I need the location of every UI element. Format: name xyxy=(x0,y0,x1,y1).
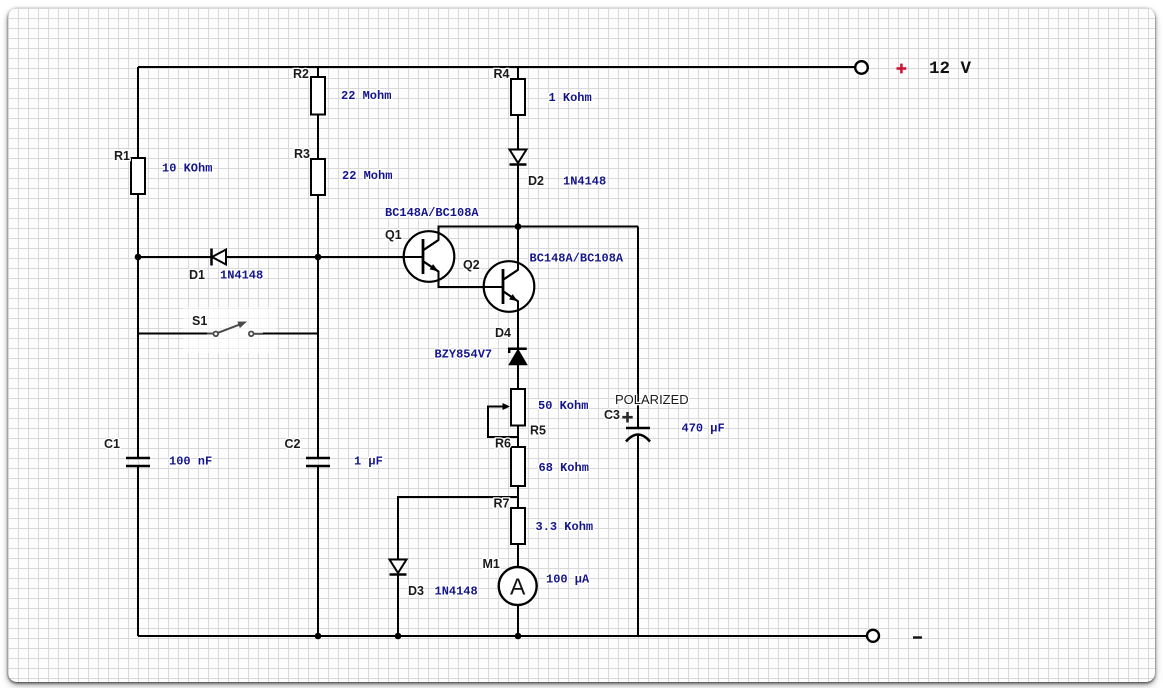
svg-text:BZY854V7: BZY854V7 xyxy=(435,348,493,362)
wire top +12V rail xyxy=(138,66,855,68)
svg-text:22 Mohm: 22 Mohm xyxy=(342,169,392,183)
svg-text:R7: R7 xyxy=(494,497,510,511)
plus sign +12V (red) xyxy=(897,64,907,74)
svg-text:470 µF: 470 µF xyxy=(682,422,725,436)
wire Q1 collector to node xyxy=(424,227,639,251)
resistor R7 xyxy=(511,508,525,544)
svg-text:POLARIZED: POLARIZED xyxy=(615,392,689,407)
resistor R1 xyxy=(131,158,145,194)
svg-text:C3: C3 xyxy=(604,408,620,422)
wire R6/R7 junction to D3 xyxy=(398,497,518,636)
wire S1 left xyxy=(138,333,207,335)
capacitor C3 plus polarity mark xyxy=(622,412,632,423)
svg-text:1N4148: 1N4148 xyxy=(220,269,263,283)
wire Q1 emitter to Q2 base xyxy=(424,262,504,288)
svg-text:Q1: Q1 xyxy=(385,228,402,242)
wire left rail upper (R1 branch) xyxy=(137,67,139,458)
capacitor C2 xyxy=(306,458,330,466)
svg-text:M1: M1 xyxy=(483,557,500,571)
svg-text:D1: D1 xyxy=(189,268,205,282)
transistor Q1 xyxy=(423,239,439,274)
svg-text:C1: C1 xyxy=(104,437,120,451)
svg-text:BC148A/BC108A: BC148A/BC108A xyxy=(385,206,479,220)
node junction dot D1-right xyxy=(315,254,322,261)
wire Q2 emitter branch down xyxy=(504,292,519,637)
resistor R3 xyxy=(311,159,325,195)
capacitor C1 xyxy=(126,458,150,466)
svg-text:22 Mohm: 22 Mohm xyxy=(341,89,391,103)
resistor R6 xyxy=(511,447,525,486)
svg-text:D3: D3 xyxy=(408,584,424,598)
diode D1 xyxy=(212,249,227,266)
resistor R4 xyxy=(511,79,525,115)
terminal +12V xyxy=(855,61,868,74)
transistor Q2 xyxy=(503,269,518,304)
svg-text:1 µF: 1 µF xyxy=(354,455,383,469)
wire left rail lower xyxy=(137,466,139,636)
svg-text:12 V: 12 V xyxy=(929,59,972,79)
node junction dot D1-left xyxy=(135,254,142,261)
svg-text:R3: R3 xyxy=(294,147,310,161)
wire bottom rail xyxy=(138,635,867,637)
wire Q2 collector xyxy=(504,227,519,280)
svg-text:Q2: Q2 xyxy=(463,258,480,272)
switch S1 backdrop xyxy=(183,307,277,353)
wire S1 right xyxy=(263,333,318,335)
wire Q1 base xyxy=(318,256,423,258)
svg-text:100 nF: 100 nF xyxy=(169,455,212,469)
wire R4/D2 branch xyxy=(517,67,519,227)
wire right branch upper (C3) xyxy=(637,227,639,429)
potentiometer R5 wiper arrow xyxy=(503,403,511,410)
diode D3 xyxy=(390,560,407,575)
svg-text:50 Kohm: 50 Kohm xyxy=(538,399,588,413)
svg-text:BC148A/BC108A: BC148A/BC108A xyxy=(530,252,624,266)
svg-text:1 Kohm: 1 Kohm xyxy=(549,91,592,105)
svg-text:3.3 Kohm: 3.3 Kohm xyxy=(536,520,594,534)
node junction dot bottom C2 xyxy=(315,633,322,640)
zener diode D4 xyxy=(509,349,527,365)
node junction dot bottom M1 xyxy=(515,633,522,640)
svg-text:68 Kohm: 68 Kohm xyxy=(539,461,589,475)
wire R5 wiper xyxy=(488,407,518,438)
svg-text:1N4148: 1N4148 xyxy=(435,585,478,599)
minus sign negative terminal xyxy=(913,636,922,638)
svg-text:D2: D2 xyxy=(528,174,544,188)
svg-text:C2: C2 xyxy=(285,437,301,451)
node junction dot bottom D3 xyxy=(395,633,402,640)
svg-text:100 µA: 100 µA xyxy=(546,573,590,587)
switch S1 xyxy=(207,322,263,337)
svg-text:1N4148: 1N4148 xyxy=(563,175,606,189)
svg-text:D4: D4 xyxy=(495,326,511,340)
polarized capacitor C3 xyxy=(626,428,650,442)
potentiometer R5 xyxy=(511,389,525,426)
svg-text:A: A xyxy=(510,573,526,599)
wire right branch lower xyxy=(637,434,639,636)
svg-text:R6: R6 xyxy=(495,437,511,451)
node junction dot collector rail xyxy=(515,223,522,230)
svg-text:R5: R5 xyxy=(530,424,546,438)
terminal negative xyxy=(867,630,879,642)
svg-text:R1: R1 xyxy=(114,149,130,163)
diode D2 xyxy=(510,150,527,165)
svg-text:S1: S1 xyxy=(192,314,207,328)
wire D1 row xyxy=(138,256,318,258)
wire R2/R3 branch lower xyxy=(317,466,319,636)
transistor Q1 body xyxy=(404,231,455,282)
svg-text:R4: R4 xyxy=(494,67,510,81)
ammeter M1 xyxy=(499,567,537,605)
svg-text:R2: R2 xyxy=(293,67,309,81)
transistor Q2 body xyxy=(484,261,535,312)
resistor R2 xyxy=(311,77,325,115)
svg-text:10 KOhm: 10 KOhm xyxy=(162,162,212,176)
wire R2/R3 branch upper xyxy=(317,67,319,458)
